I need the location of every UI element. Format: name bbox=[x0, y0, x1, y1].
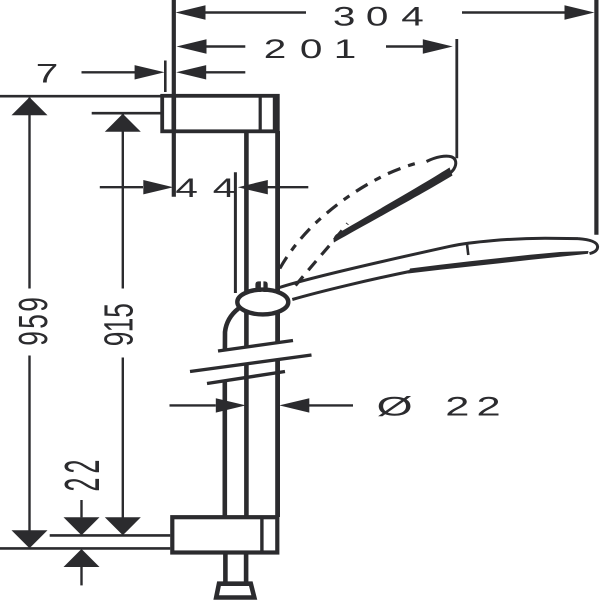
arrowhead 44 right-pointing-left bbox=[238, 180, 268, 194]
svg-text:2: 2 bbox=[264, 35, 287, 65]
arrowhead 959 bottom bbox=[12, 530, 48, 548]
dim dia22 line bbox=[170, 404, 354, 406]
arrowhead 304 left bbox=[176, 5, 206, 19]
svg-text:2: 2 bbox=[477, 391, 501, 421]
arrowhead 7 left-pointing-right bbox=[135, 65, 165, 79]
hand shower solid: right end cap bbox=[578, 239, 598, 254]
svg-text:7: 7 bbox=[36, 59, 59, 89]
arrowhead 915 bottom bbox=[105, 517, 141, 535]
arrowhead 7 right-pointing-left bbox=[176, 65, 206, 79]
hand shower solid: bottom edge bbox=[292, 271, 412, 300]
reference line bracket2 mid bbox=[50, 534, 171, 537]
reference line rail end bbox=[0, 547, 170, 550]
svg-text:2: 2 bbox=[56, 460, 110, 474]
arrowhead 22 lower-pointing-up bbox=[64, 549, 100, 567]
svg-text:Ø: Ø bbox=[377, 392, 413, 422]
svg-text:9: 9 bbox=[11, 297, 56, 312]
arrowhead 304 right bbox=[565, 5, 595, 19]
reference line bracket1 mid bbox=[92, 112, 164, 115]
dim 7 line bbox=[82, 71, 246, 73]
hand shower solid: face tick bbox=[467, 243, 468, 255]
svg-text:9: 9 bbox=[97, 332, 142, 347]
dim 304 line bbox=[203, 11, 567, 13]
reference line bracket1 top bbox=[0, 95, 164, 98]
svg-text:5: 5 bbox=[11, 314, 56, 329]
svg-text:3: 3 bbox=[333, 2, 356, 32]
arrowhead dia22 left-pointing-right bbox=[216, 398, 246, 412]
svg-text:4: 4 bbox=[213, 174, 236, 204]
dim 304 extension line right bbox=[594, 0, 598, 235]
svg-text:1: 1 bbox=[97, 318, 142, 333]
hand shower solid: top edge bbox=[280, 238, 579, 287]
hand shower dashed: top edge bbox=[280, 162, 420, 268]
dim 7 tick line bbox=[164, 61, 167, 93]
svg-text:0: 0 bbox=[300, 35, 323, 65]
hand shower dashed: dark face band bbox=[334, 168, 453, 243]
dim 22 vertical shafts bbox=[80, 500, 82, 585]
hand shower solid: dark face band bbox=[408, 251, 589, 274]
pipe break mark lower bbox=[207, 372, 285, 384]
dim 201 line bbox=[205, 45, 428, 47]
wall reference line bbox=[172, 0, 176, 197]
rail end cap bbox=[216, 584, 254, 598]
hand shower dashed: tip outline bbox=[427, 156, 456, 177]
arrowhead 201 right bbox=[423, 39, 453, 53]
hand shower dashed: bottom edge bbox=[296, 224, 348, 286]
dim 44 extension line bbox=[234, 172, 237, 293]
arrowhead 959 top bbox=[12, 97, 48, 115]
bottom wall bracket bbox=[172, 517, 277, 552]
svg-text:1: 1 bbox=[334, 35, 357, 65]
arrowhead 915 top bbox=[105, 114, 141, 132]
rail tube left edge bbox=[244, 131, 249, 517]
top wall bracket bbox=[162, 96, 278, 132]
wall line through bracket bbox=[172, 96, 177, 131]
svg-text:2: 2 bbox=[56, 478, 110, 492]
arrowhead 201 left bbox=[177, 39, 207, 53]
svg-text:9: 9 bbox=[11, 331, 56, 346]
slider clamp nub bbox=[255, 281, 261, 292]
arrowhead 22 upper-pointing-down bbox=[64, 517, 100, 535]
svg-text:5: 5 bbox=[97, 303, 142, 318]
arrowhead dia22 right-pointing-left bbox=[279, 398, 309, 412]
dim 915 vertical line bbox=[122, 115, 124, 518]
svg-text:4: 4 bbox=[175, 174, 198, 204]
shower hose bbox=[225, 309, 246, 584]
dim 44 line bbox=[100, 186, 308, 188]
arrowhead 44 left-pointing-right bbox=[143, 180, 173, 194]
slider holder ellipse bbox=[237, 290, 288, 315]
rail tube right edge bbox=[275, 131, 280, 517]
pipe break mark middle bbox=[190, 355, 312, 372]
pipe break mark upper bbox=[218, 341, 293, 352]
svg-text:0: 0 bbox=[366, 2, 389, 32]
dim 201 extension line right bbox=[455, 39, 458, 158]
svg-text:2: 2 bbox=[445, 391, 469, 421]
dim 959 vertical line bbox=[28, 98, 30, 531]
svg-text:4: 4 bbox=[401, 2, 424, 32]
